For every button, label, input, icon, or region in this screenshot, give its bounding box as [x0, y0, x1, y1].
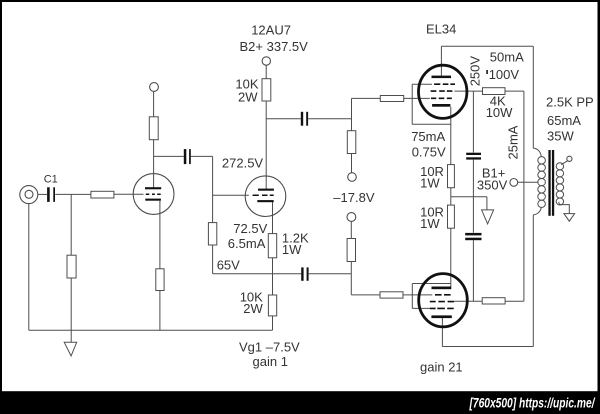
svg-text:75mA: 75mA [411, 129, 445, 144]
svg-text:2W: 2W [243, 301, 263, 316]
svg-text:1W: 1W [420, 216, 440, 231]
svg-text:272.5V: 272.5V [222, 156, 264, 171]
svg-text:2.5K PP: 2.5K PP [546, 95, 594, 110]
svg-text:35W: 35W [547, 129, 574, 144]
svg-text:1W: 1W [282, 242, 302, 257]
svg-text:6.5mA: 6.5mA [228, 236, 266, 251]
svg-text:EL34: EL34 [426, 22, 456, 37]
svg-text:[760x500] https://upic.me/: [760x500] https://upic.me/ [469, 395, 596, 411]
svg-text:C1: C1 [44, 173, 58, 185]
svg-text:1W: 1W [420, 176, 440, 191]
svg-text:0.75V: 0.75V [412, 145, 446, 160]
svg-text:B2+ 337.5V: B2+ 337.5V [240, 39, 309, 54]
svg-text:72.5V: 72.5V [233, 221, 267, 236]
svg-text:–17.8V: –17.8V [333, 190, 375, 205]
svg-text:250V: 250V [468, 56, 483, 87]
svg-text:350V: 350V [477, 177, 508, 192]
svg-text:100V: 100V [489, 67, 520, 82]
svg-text:65mA: 65mA [547, 113, 581, 128]
svg-text:Vg1 –7.5V: Vg1 –7.5V [239, 339, 300, 354]
svg-text:12AU7: 12AU7 [251, 22, 291, 37]
svg-text:50mA: 50mA [490, 49, 524, 64]
svg-text:25mA: 25mA [506, 125, 521, 159]
svg-text:2W: 2W [238, 90, 258, 105]
svg-text:10W: 10W [486, 105, 513, 120]
svg-text:gain 1: gain 1 [253, 354, 288, 369]
svg-text:gain 21: gain 21 [420, 360, 463, 375]
svg-text:65V: 65V [217, 258, 240, 273]
